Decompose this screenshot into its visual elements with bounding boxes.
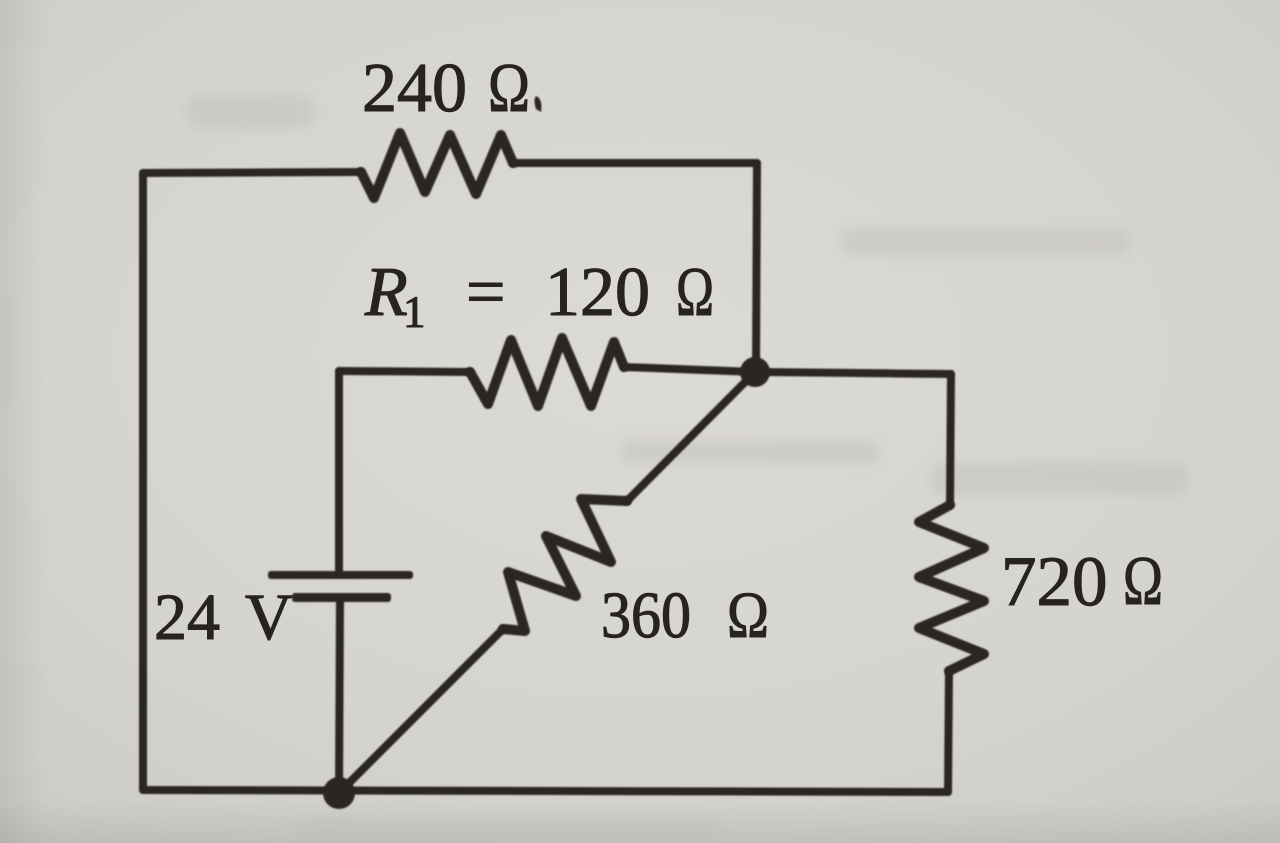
label 24 V — [154, 581, 293, 654]
node B junction dot — [323, 777, 355, 809]
stray ink mark — [535, 96, 542, 112]
svg-text:240: 240 — [362, 50, 467, 127]
wire: bottom horizontal — [143, 790, 948, 792]
wire: top left segment — [143, 172, 361, 173]
svg-text:120: 120 — [545, 254, 650, 331]
battery 24V negative plate — [292, 593, 391, 602]
wire: diagonal lower straight — [339, 629, 503, 793]
svg-text:720: 720 — [1001, 543, 1108, 621]
resistor 240ohm zigzag — [361, 133, 513, 198]
svg-text:Ω: Ω — [488, 50, 530, 127]
svg-text:360: 360 — [601, 579, 691, 652]
wire: right vertical upper — [950, 374, 951, 505]
wire: right vertical lower — [948, 671, 949, 792]
wire: diagonal upper straight — [627, 372, 755, 501]
resistor 360ohm zigzag — [503, 499, 627, 631]
label 360 ohm — [601, 579, 769, 652]
label R1 = 120 ohm — [364, 254, 714, 337]
wire: battery top lead — [335, 371, 343, 571]
label 240 ohm — [362, 50, 530, 127]
wire: top right segment — [513, 159, 757, 167]
svg-text:24: 24 — [154, 581, 220, 654]
svg-text:Ω: Ω — [727, 579, 769, 652]
svg-text:R: R — [364, 254, 408, 331]
svg-text:Ω: Ω — [1123, 543, 1163, 620]
wire: node A to right vertical — [755, 372, 951, 374]
svg-text:=: = — [466, 254, 505, 331]
svg-text:V: V — [245, 581, 293, 654]
wire: middle left segment — [339, 371, 470, 372]
wire: middle right segment into node A — [624, 367, 755, 372]
wire: left vertical — [139, 173, 147, 790]
resistor 720ohm zigzag — [919, 505, 984, 671]
svg-text:Ω: Ω — [676, 254, 714, 331]
wire: battery bottom lead — [339, 601, 340, 793]
svg-text:1: 1 — [403, 287, 426, 337]
wire: right upper vertical into node — [756, 163, 757, 372]
node A junction dot — [740, 357, 770, 387]
label 720 ohm — [1001, 543, 1163, 621]
battery 24V positive plate — [268, 571, 413, 579]
resistor R1 120ohm zigzag — [470, 338, 624, 406]
